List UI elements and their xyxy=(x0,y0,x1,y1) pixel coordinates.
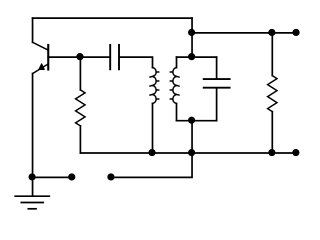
wire: tank bottom rail xyxy=(177,120,217,122)
capacitor C2 (tank capacitor) xyxy=(204,57,230,121)
junction dot: tank top node xyxy=(188,53,195,60)
junction dot: tank bottom node xyxy=(188,117,195,124)
wire: L1 bottom lead to bottom bus xyxy=(152,104,154,154)
junction dot: R2 top / top bus xyxy=(268,29,275,36)
wire: emitter drop to ground xyxy=(32,74,34,197)
Q1 emitter lead xyxy=(33,65,48,74)
R2 zigzag body xyxy=(268,76,277,112)
junction dot: tank column / bottom bus xyxy=(188,149,195,156)
R1 zigzag body xyxy=(76,90,86,126)
resistor R1 (base bias resistor) xyxy=(76,57,86,153)
Q1 base bar xyxy=(47,45,49,70)
terminal dot: bottom right output terminal xyxy=(292,149,299,156)
wire: tank bottom to bottom bus xyxy=(191,121,193,153)
wire: collector riser xyxy=(32,18,34,42)
ground symbol xyxy=(15,196,49,209)
wire: tank top rail xyxy=(177,56,217,58)
terminal dot: ground-side terminal xyxy=(68,173,75,180)
terminal dot: top right output terminal xyxy=(292,29,299,36)
L2 top lead xyxy=(176,57,178,67)
wire: base lead to node B xyxy=(48,56,80,58)
wire: bottom bus stub down to lower terminal wire xyxy=(111,153,192,177)
wire: top bus xyxy=(192,32,296,34)
junction dot: top bus / tank riser xyxy=(188,29,195,36)
inductor L2 (transformer secondary, loops face left) xyxy=(170,57,179,121)
R2 top lead xyxy=(271,33,273,76)
wire: C1 right plate to L1 top xyxy=(120,57,153,67)
inductor L1 (transformer primary, loops face right) xyxy=(150,68,159,104)
terminal dot: lower middle terminal xyxy=(107,173,114,180)
junction dot: L1 / bottom bus xyxy=(148,149,155,156)
Q1 collector lead xyxy=(33,42,48,50)
junction dot: node B (base / R1 / C1) xyxy=(76,53,83,60)
L2 bottom lead xyxy=(176,104,178,121)
R1 top lead xyxy=(79,57,81,90)
capacitor C1 (coupling capacitor) xyxy=(110,45,119,69)
wire: bottom bus xyxy=(80,152,296,154)
C2 top lead xyxy=(216,57,218,78)
resistor R2 (load resistor) xyxy=(268,33,277,153)
wire: node B to C1 left plate xyxy=(80,56,109,58)
wire: top rail from collector column to tank column xyxy=(33,17,193,19)
Q1 emitter arrow (points to base bar: PNP) xyxy=(39,64,44,70)
R2 bottom lead xyxy=(271,112,273,153)
transistor Q1 (PNP) xyxy=(33,42,49,73)
junction dot: emitter column / ground terminal stub xyxy=(28,173,35,180)
wire: tank column riser (top rail through top bus to tank top) xyxy=(191,18,193,57)
R1 bottom lead xyxy=(79,126,81,153)
wire: ground terminal stub xyxy=(33,176,73,178)
junction dot: R2 bottom / bottom bus xyxy=(268,149,275,156)
C2 bottom lead xyxy=(216,89,218,121)
